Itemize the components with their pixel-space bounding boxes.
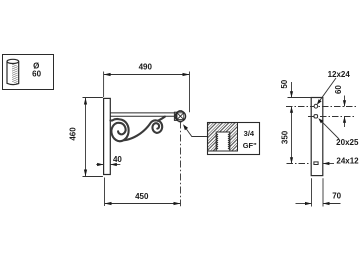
dimension 460: [83, 98, 103, 177]
detail box: [208, 123, 260, 155]
svg-text:490: 490: [139, 62, 153, 71]
leader to detail: [184, 126, 207, 137]
svg-text:24x12: 24x12: [336, 157, 359, 166]
svg-text:350: 350: [281, 130, 290, 144]
post (side view): [311, 98, 323, 176]
arm: [110, 113, 174, 116]
hole 1 (12x24): [314, 104, 318, 108]
threaded socket section: [208, 123, 238, 151]
centerline hole 3: [287, 163, 312, 165]
dimension 70: [296, 178, 341, 206]
svg-text:GF": GF": [243, 141, 257, 150]
dimension 350: [291, 107, 293, 164]
svg-text:12x24: 12x24: [328, 70, 351, 79]
dimension 450: [105, 178, 181, 207]
hole 2 (20x25): [314, 115, 318, 118]
hole 3 (24x12): [314, 162, 318, 165]
svg-text:40: 40: [113, 155, 122, 164]
svg-text:3/4: 3/4: [244, 129, 255, 138]
centerline hole 2: [308, 116, 356, 118]
cylinder icon: [7, 59, 19, 84]
dimension 40: [96, 164, 120, 166]
svg-text:450: 450: [135, 192, 149, 201]
post top extension: [288, 97, 312, 99]
svg-text:460: 460: [68, 127, 77, 141]
wall plate: [104, 98, 111, 174]
dimension 60: [344, 96, 346, 107]
dimension 490: [104, 72, 190, 113]
label 20x25 leader: [320, 120, 339, 139]
collar: [174, 112, 176, 120]
label 24x12 leader: [323, 163, 334, 165]
svg-text:60: 60: [32, 70, 41, 79]
label 12x24 leader: [318, 78, 336, 103]
scroll ornament: [110, 117, 164, 142]
thread zigzag: [216, 134, 230, 150]
svg-text:70: 70: [332, 191, 341, 200]
centerline hole 1: [286, 106, 356, 108]
ball socket: [175, 111, 185, 122]
legend box: [3, 55, 54, 90]
svg-text:50: 50: [280, 79, 289, 88]
dimension 50: [291, 82, 293, 98]
svg-text:60: 60: [334, 85, 343, 94]
center line (dash-dot): [180, 122, 182, 207]
svg-text:20x25: 20x25: [336, 138, 359, 147]
